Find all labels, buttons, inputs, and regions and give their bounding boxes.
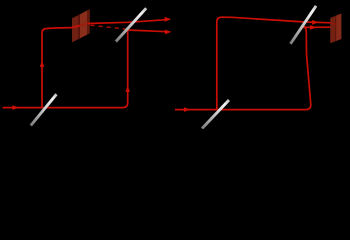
compensator plate P (thin side face) xyxy=(87,9,90,34)
compensator plate P (dark divider edge) xyxy=(78,15,80,39)
mirror M (right lighter face) xyxy=(336,14,342,42)
arrowhead: input beam arrow xyxy=(12,105,18,110)
wire: dim beam inside mirror xyxy=(330,23,337,25)
arrowhead: lower output arrow xyxy=(165,30,172,35)
arrowhead: arrow on top beam before mirror xyxy=(312,20,319,25)
wire: dashed undeviated reference beam from plate to BS2 xyxy=(91,25,129,29)
wire: displaced beam from plate through BS2 to right output xyxy=(87,20,166,24)
wire: dim beam inside plate xyxy=(72,26,80,28)
wire: return beam from mirror back through BS2 xyxy=(302,26,331,28)
mirror M (left darker face) xyxy=(330,16,335,44)
arrowhead: input beam arrow (right diagram) xyxy=(184,107,190,112)
arrowhead: small up arrow on right vertical beam xyxy=(125,86,130,92)
beam splitter BS1 (right diagram, lower-left) xyxy=(202,100,229,129)
compensator plate P (right, lighter face) xyxy=(79,10,87,39)
mirror M (dark divider edge) xyxy=(335,16,337,42)
wire: input beam (left, bottom rail into BS1 and on to lower-right corner, up right side) xyxy=(3,30,128,107)
wire: reflected beam up left side and top rail to compensator plate xyxy=(42,28,72,108)
arrowhead: small up arrow on left vertical beam xyxy=(40,61,45,67)
compensator plate P (left, darker face) xyxy=(72,15,79,43)
beam splitter BS2 (right diagram, upper-right) xyxy=(291,6,317,44)
beam splitter BS2 (left diagram, upper-right) xyxy=(116,8,146,41)
wire: reflected beam up left side, top rail sloping to mirror xyxy=(217,17,331,109)
arrowhead: upper output arrow xyxy=(165,17,172,22)
arrowhead: arrow on return beam near mirror xyxy=(310,25,317,30)
wire: lower output beam from BS2 to right xyxy=(128,30,167,32)
wire: input beam and bottom rail to lower-right corner xyxy=(175,25,311,109)
beam splitter BS1 (left diagram, lower-left) xyxy=(31,94,57,125)
